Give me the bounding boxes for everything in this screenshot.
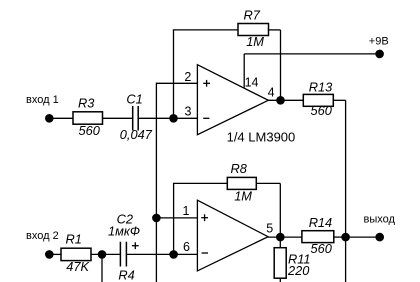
resistor R3 <box>73 96 103 138</box>
node junction pin5 <box>276 233 285 242</box>
svg-text:+9В: +9В <box>369 36 389 48</box>
svg-text:1/4 LM3900: 1/4 LM3900 <box>227 130 296 145</box>
svg-text:R7: R7 <box>244 8 261 23</box>
wire R13 right <box>333 99 345 101</box>
svg-text:R3: R3 <box>78 96 94 111</box>
wire output pin4 to R13 <box>268 99 303 101</box>
resistor R1 <box>61 232 91 274</box>
node junction R4 <box>98 250 107 259</box>
wire R7 down to output node <box>280 30 282 100</box>
wire feedback horizontal to R8 left <box>173 182 227 184</box>
wire R3 to C1 <box>103 117 133 119</box>
svg-text:220: 220 <box>287 263 310 278</box>
svg-text:R1: R1 <box>66 232 82 247</box>
wire bus from pin2 down to bottom edge <box>155 83 157 282</box>
capacitor C2 <box>108 212 140 267</box>
svg-text:560: 560 <box>311 103 333 118</box>
resistor R11 <box>274 248 310 279</box>
wire output pin5 to R14 <box>268 236 302 238</box>
svg-text:14: 14 <box>245 76 259 90</box>
resistor R14 <box>302 215 334 256</box>
svg-text:4: 4 <box>268 86 275 100</box>
node junction pin1 <box>152 214 161 223</box>
op-amp U1 1/4 LM3900 <box>197 65 295 145</box>
wire pin5 down to R11 <box>279 237 281 248</box>
wire R14 right to bus <box>334 236 346 238</box>
node junction pin3 <box>169 114 178 123</box>
wire R11 down to bottom edge <box>279 278 281 282</box>
wire R8 down to pin5 node <box>279 183 281 237</box>
node вход 1 terminal <box>26 94 59 122</box>
op-amp U2 1/4 LM3900 <box>197 200 268 271</box>
svg-text:вход 1: вход 1 <box>26 94 59 106</box>
wire pin 1 <box>156 217 197 219</box>
node +9В terminal <box>369 36 389 59</box>
wire pin 2 <box>156 82 197 84</box>
svg-text:5: 5 <box>266 222 273 236</box>
wire вход1 to R3 <box>49 117 73 119</box>
svg-text:1: 1 <box>183 204 190 218</box>
svg-text:C1: C1 <box>126 92 142 107</box>
wire C1 to op-amp pin 3 <box>138 117 197 119</box>
svg-text:R4: R4 <box>118 268 134 282</box>
svg-text:R8: R8 <box>231 161 248 176</box>
wire вход2 to R1 <box>49 253 61 255</box>
wire feedback vertical to R7 <box>173 30 175 118</box>
node junction pin4 <box>276 96 285 105</box>
resistor R7 <box>238 8 269 50</box>
node вход 2 terminal <box>26 230 59 259</box>
svg-text:0,047: 0,047 <box>120 127 153 142</box>
svg-text:R14: R14 <box>309 215 332 230</box>
svg-text:выход: выход <box>364 214 396 226</box>
wire R1 to C2 <box>91 253 120 255</box>
wire feedback vertical to R8 <box>173 183 175 254</box>
svg-text:1M: 1M <box>246 34 264 49</box>
svg-text:3: 3 <box>185 104 192 118</box>
wire +9V rail <box>244 53 379 55</box>
wire bus to выход terminal <box>346 236 380 238</box>
node junction pin6 <box>169 250 178 259</box>
svg-text:вход 2: вход 2 <box>26 230 59 242</box>
svg-text:47K: 47K <box>66 259 89 274</box>
svg-text:560: 560 <box>311 241 333 256</box>
wire R8 right <box>256 182 280 184</box>
svg-text:2: 2 <box>184 70 191 84</box>
node junction output bus <box>341 233 350 242</box>
capacitor C1 <box>120 92 153 142</box>
wire to R4 below <box>101 254 103 282</box>
svg-text:6: 6 <box>183 240 190 254</box>
svg-text:1мкФ: 1мкФ <box>108 224 140 239</box>
wire C2 to op-amp pin 6 <box>126 253 197 255</box>
wire pin 14 to +9V rail <box>243 54 245 88</box>
wire feedback horizontal to R7 left <box>173 29 238 31</box>
wire R7 right <box>269 29 281 31</box>
resistor R13 <box>303 79 333 118</box>
wire bus R13 down to bottom edge <box>345 100 347 282</box>
svg-text:560: 560 <box>79 123 101 138</box>
svg-text:1M: 1M <box>234 188 252 203</box>
svg-text:R13: R13 <box>309 79 332 94</box>
node выход terminal <box>364 214 396 242</box>
resistor R8 <box>227 161 256 204</box>
